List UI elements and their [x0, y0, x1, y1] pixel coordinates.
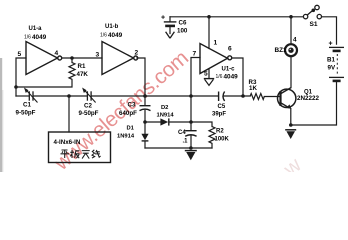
svg-text:1: 1 — [214, 40, 218, 47]
svg-text:D1: D1 — [127, 126, 135, 132]
wire R2 top branch — [191, 122, 212, 127]
wire BZ1 to collector — [290, 57, 292, 88]
wire C3 bottom — [144, 110, 146, 122]
svg-text:1N914: 1N914 — [117, 134, 135, 140]
ground at Q1 emitter — [285, 130, 296, 139]
resistor R1 — [69, 63, 75, 80]
svg-text:C2: C2 — [84, 103, 92, 110]
svg-text:C1: C1 — [23, 102, 31, 109]
ground under C4 — [185, 151, 197, 161]
svg-text:2: 2 — [135, 50, 139, 57]
wire antenna drop — [68, 96, 70, 132]
inverter U1-c — [200, 44, 232, 74]
inverter U1-b — [102, 42, 138, 75]
svg-text:4: 4 — [293, 37, 297, 44]
wire D1 top stub — [144, 122, 146, 134]
svg-text:4049: 4049 — [224, 73, 239, 80]
inverter U1-a — [26, 42, 62, 75]
svg-text:1/6: 1/6 — [24, 35, 31, 41]
wire D1 bottom stub — [144, 141, 146, 148]
wire U1-c input riser — [191, 58, 200, 123]
label 1/6 4049 (U1-c) — [216, 73, 239, 80]
svg-text:.1: .1 — [183, 139, 189, 145]
svg-text:3: 3 — [96, 52, 100, 59]
wire U1-c pin1 drop — [208, 17, 210, 49]
capacitor C5 — [219, 92, 225, 102]
wire U1-a output to U1-b input — [62, 57, 102, 59]
svg-text:R2: R2 — [216, 129, 224, 135]
svg-text:B1: B1 — [327, 57, 335, 64]
switch S1 — [303, 5, 321, 19]
resistor R3 — [250, 94, 264, 100]
wire C4 top stub — [190, 122, 192, 130]
capacitor C4 — [185, 131, 196, 137]
scan smudge left edge — [0, 58, 2, 172]
wire BZ1 drop — [290, 17, 292, 44]
wire U1-b output drop — [137, 58, 145, 96]
wire — [169, 121, 191, 123]
svg-text:+: + — [161, 15, 165, 22]
wire bottom right rail to battery — [291, 82, 337, 125]
diode D2 — [160, 118, 168, 125]
svg-text:U1-c: U1-c — [222, 67, 236, 73]
wire C4 bottom stub — [190, 136, 192, 148]
svg-text:4049: 4049 — [108, 32, 123, 39]
antenna box 4-INx6-IN — [49, 132, 111, 163]
svg-text:R1: R1 — [78, 63, 86, 70]
wire R2 bottom stub — [211, 144, 213, 149]
label U1-b — [105, 24, 119, 30]
svg-text:D2: D2 — [161, 105, 168, 111]
svg-text:9-50pF: 9-50pF — [16, 110, 36, 117]
svg-text:5: 5 — [18, 51, 22, 58]
capacitor C6 — [164, 22, 177, 26]
label 1/6 4049 (U1-a) — [24, 34, 47, 41]
wire emitter down — [290, 109, 292, 125]
svg-text:C3: C3 — [128, 102, 136, 109]
label U1-a — [29, 26, 43, 32]
diode D1 — [141, 134, 148, 141]
svg-text:C5: C5 — [218, 104, 226, 110]
buzzer BZ1 — [285, 44, 297, 56]
wire U1-c pin5 stub — [208, 70, 210, 79]
label 1/6 4049 (U1-b) — [100, 32, 123, 39]
svg-text:1K: 1K — [249, 85, 257, 92]
wire U1-a input — [16, 58, 26, 96]
svg-text:2N2222: 2N2222 — [297, 95, 320, 102]
svg-text:BZ1: BZ1 — [275, 47, 288, 54]
svg-text:1N914: 1N914 — [157, 113, 175, 119]
node junction dots — [14, 15, 293, 150]
battery B1 — [329, 47, 344, 81]
svg-text:39pF: 39pF — [212, 112, 226, 118]
label flat-panel antenna glyphs — [61, 150, 101, 159]
wire C3 top — [144, 96, 146, 105]
wire main node line — [16, 95, 29, 97]
svg-text:47K: 47K — [77, 71, 89, 78]
svg-text:9V: 9V — [328, 65, 336, 72]
wire — [223, 95, 250, 97]
svg-text:+: + — [329, 41, 333, 48]
resistor R2 — [209, 127, 215, 144]
wire R1 feedback — [71, 58, 73, 63]
wire top supply rail — [170, 16, 303, 18]
wire C6 bottom stub — [169, 27, 171, 34]
svg-text:4: 4 — [55, 50, 59, 57]
variable capacitor C1 — [26, 90, 38, 103]
wire U1-c output drop — [232, 58, 243, 96]
svg-text:9-50pF: 9-50pF — [79, 110, 99, 117]
svg-text:6: 6 — [228, 46, 232, 53]
svg-text:U1-b: U1-b — [105, 24, 119, 30]
svg-text:1/6: 1/6 — [100, 33, 107, 39]
capacitor C3 — [140, 106, 151, 111]
wire C6 top stub — [169, 17, 171, 22]
svg-text:U1-a: U1-a — [29, 26, 43, 32]
svg-text:4049: 4049 — [32, 34, 47, 41]
svg-text:4-INx6-IN: 4-INx6-IN — [54, 139, 81, 146]
wire D2 row — [145, 121, 160, 123]
wire S1 to battery corner — [322, 17, 337, 44]
variable capacitor C2 — [84, 90, 96, 103]
svg-text:640pF: 640pF — [119, 110, 137, 117]
svg-text:100K: 100K — [215, 137, 230, 143]
ground under C6 — [166, 32, 175, 38]
svg-text:C6: C6 — [179, 20, 187, 27]
svg-text:100: 100 — [177, 28, 188, 35]
svg-text:C4: C4 — [178, 130, 186, 136]
svg-text:S1: S1 — [310, 21, 318, 28]
wire R3 to base — [264, 96, 280, 98]
ground under U1-c — [204, 79, 214, 86]
wire — [33, 95, 87, 97]
wire R1 bottom to input — [16, 80, 72, 88]
svg-text:1/6: 1/6 — [216, 74, 223, 80]
wire — [92, 95, 219, 97]
transistor Q1 — [278, 88, 296, 108]
svg-text:7: 7 — [193, 51, 197, 58]
wire bottom rail — [145, 147, 212, 149]
svg-text:5: 5 — [204, 71, 208, 78]
